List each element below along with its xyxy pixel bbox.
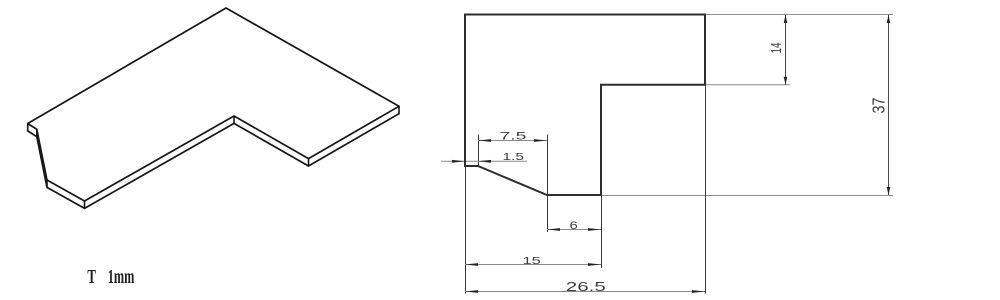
arrows 7.5 (478, 139, 491, 142)
edge at chamfer top corner (36, 129, 38, 136)
ext: right step edge prolonged for 14 (705, 84, 790, 86)
extension lines (vertical, dark) (466, 85, 706, 294)
arrows 15 (465, 263, 478, 266)
dimension lines (vertical) (786, 15, 889, 195)
arrows 1.5 (outside) (452, 160, 465, 163)
dimension lines (light) (441, 141, 705, 292)
edge at notch outer corner (233, 116, 235, 123)
ext: right outer edge prolonged down for 26.5 (705, 85, 707, 294)
dim line 15 (465, 264, 601, 266)
edge at front bottom corner (84, 201, 86, 208)
dim line 6 (547, 229, 601, 231)
svg-text:7.5: 7.5 (500, 130, 527, 142)
part outline (2D view) (465, 15, 705, 196)
plate bottom-face visible edges (28, 114, 399, 209)
ext: bottom edge prolonged right for 37 (601, 195, 893, 197)
edge at right corner (398, 106, 400, 113)
ext: top edge prolonged right for 14 and 37 (705, 14, 893, 16)
svg-text:1.5: 1.5 (503, 152, 525, 163)
svg-text:15: 15 (523, 256, 542, 267)
plate top face (L-shaped outline with chamfer) (28, 8, 399, 201)
arrows 26.5 (465, 290, 478, 293)
ext: x=478 for 7.5 and 1.5 (478, 135, 480, 167)
plate thickness vertical edges (28, 106, 399, 208)
svg-text:1mm: 1mm (108, 266, 135, 288)
extension lines (thin) (601, 15, 893, 196)
dim line 1.5 with leader (441, 160, 527, 162)
ext: x=601 edge prolonged down for 6 and 15 (601, 195, 603, 268)
svg-text:T: T (87, 266, 96, 288)
dim line 26.5 (465, 291, 705, 293)
svg-text:37: 37 (869, 98, 889, 114)
svg-text:14: 14 (768, 43, 785, 54)
arrowheads (452, 15, 890, 293)
ext: x=547 for 7.5 and 6 (547, 135, 549, 233)
edge at notch inner corner (308, 159, 310, 166)
svg-text:6: 6 (570, 220, 578, 232)
arrows 37 (887, 15, 891, 23)
svg-text:26.5: 26.5 (566, 280, 606, 294)
edge at left corner (27, 124, 29, 131)
dim line 7.5 (478, 140, 547, 142)
dim line 14 (785, 15, 787, 85)
arrows 6 (547, 228, 560, 231)
dim line 37 (888, 15, 890, 195)
ext: left edge prolonged down for 15 and 26.5 (465, 166, 467, 294)
arrows 14 (784, 15, 788, 23)
edge at chamfer bottom corner (46, 180, 48, 187)
